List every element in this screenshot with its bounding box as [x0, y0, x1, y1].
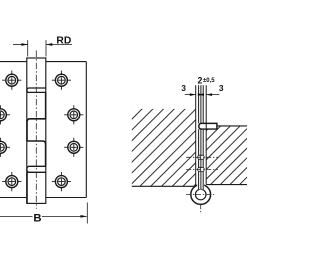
svg-text:±0,5: ±0,5	[203, 78, 215, 84]
svg-text:RD: RD	[56, 35, 71, 46]
svg-text:3: 3	[219, 83, 224, 93]
svg-text:3: 3	[181, 83, 186, 93]
svg-text:B: B	[33, 212, 41, 224]
svg-text:2: 2	[198, 76, 203, 86]
